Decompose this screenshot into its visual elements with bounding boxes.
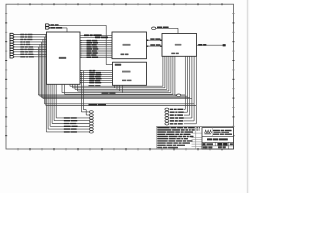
wire U1-U2 address row 4 [80, 48, 114, 50]
company logo [204, 130, 211, 134]
wire U1 port pin 3 to E11 [50, 84, 90, 126]
wire U1-U2 address row 8 [80, 56, 114, 58]
IC U4 MODEM [162, 34, 197, 57]
wire U1-U2 address row 2 [80, 44, 114, 46]
wire data bus D2 [75, 56, 167, 89]
net label port row 4 [64, 128, 77, 129]
connector J2 pin 2 CLK-A [46, 27, 63, 29]
notes text [157, 127, 195, 148]
net label port row 5 [64, 131, 77, 132]
wire J1-3 to U1 [14, 38, 48, 41]
connector J2 pin 1 CLK-B [46, 24, 59, 26]
wire U3 pin 2 to bus [119, 85, 121, 91]
net label DATA BUS [102, 92, 116, 94]
connector J1 pin 2 [10, 36, 32, 38]
wire CLK-B net [49, 25, 113, 64]
wire bus branch J1-2 [44, 37, 194, 104]
company name [213, 130, 232, 135]
wire U1-U2 address row 6 [80, 52, 114, 54]
wire J1-4 to U1 [14, 40, 48, 43]
connector E9 [89, 117, 93, 119]
wire U1-U3 row 3 [80, 76, 114, 78]
connector J1 pin 3 [10, 38, 32, 40]
wire U1 port pin 1 to E9 [54, 84, 90, 120]
wire U4 pin column 3 [184, 56, 192, 118]
connector E1 [165, 108, 183, 110]
wire U2-U4 TXD [147, 44, 163, 47]
wire data bus D1 [73, 56, 165, 88]
net label bus L1 [89, 85, 101, 87]
wire CLK-A net [49, 28, 67, 32]
wire bus branch J1-3 [43, 39, 192, 98]
dwg number [217, 143, 227, 146]
wire U2-U4 RXD [147, 38, 163, 41]
wire U1-U3 row 1 [80, 72, 114, 74]
connector E7 [89, 111, 93, 113]
notes table frame [156, 127, 233, 149]
wire U3 pin 3 to bus [121, 85, 123, 92]
fscm field [207, 143, 213, 145]
connector J1 pin 10 [10, 56, 34, 58]
wire U4 pin column 2 [184, 56, 190, 115]
wire U1-U2 address row 0 [80, 40, 114, 42]
connector E8 [89, 114, 93, 116]
connector E2 [165, 111, 184, 113]
title block frame [202, 128, 234, 149]
resistor R1 [152, 27, 169, 30]
net label port row 2 [64, 123, 76, 124]
connector J1 pin 9 [10, 53, 33, 55]
scan edge artifact right [247, 0, 249, 193]
wire U4 pin column 4 [184, 56, 194, 121]
IC U3 ROM [113, 62, 147, 85]
connector E6 [165, 123, 183, 125]
wire R1 to U4 [156, 28, 178, 33]
connector J1 pin 1 [10, 33, 32, 35]
wire U1-U2 row B [80, 37, 114, 39]
connector J1 pin 7 [10, 48, 34, 50]
wire U4 pin column 5 [184, 56, 196, 124]
sheet field [218, 146, 226, 148]
IC U1 CPU [47, 32, 81, 84]
connector E14 [89, 131, 93, 133]
wire data bus D0 [70, 56, 163, 86]
wire U1-U3 row 4 [80, 78, 114, 80]
wire U1-U2 address row 3 [80, 46, 114, 48]
wire U1-U3 row 6 [80, 82, 114, 84]
wire bus branch J1-4 [41, 42, 189, 97]
wire U1-U2 address row 5 [80, 50, 114, 52]
wire J1-10 to U1 [14, 55, 48, 58]
notes rule lines [192, 133, 202, 146]
wire J1-6 to U1 [14, 45, 48, 48]
wire U4 to TP1 [175, 56, 177, 95]
wire U1 port pin 4 to E12 [48, 84, 90, 129]
wire data bus D3 [78, 56, 169, 91]
wire J1-2 to U1 [14, 36, 48, 39]
connector P3 [223, 44, 226, 46]
wire J1-5 to U1 [14, 43, 48, 46]
wire U4 output [197, 44, 223, 46]
connector J1 pin 6 [10, 46, 33, 48]
scale field [203, 146, 213, 148]
connector E3 [165, 114, 183, 116]
connector J1 pin 5 [10, 43, 30, 45]
wire U1-U3 row 0 [80, 70, 114, 72]
wire U1-U2 address row 7 [80, 54, 114, 56]
wire U1-U3 row 5 [80, 80, 114, 82]
net label XTAL BUS lower [89, 104, 107, 106]
wire J1-9 to U1 [14, 53, 48, 56]
wire U1-U2 address row 1 [80, 42, 114, 44]
sheet border frame [5, 3, 234, 150]
connector E11 [89, 122, 93, 124]
wire U1-U3 row 2 [80, 74, 114, 76]
wire U1 port pin 2 to E10 [52, 84, 90, 123]
IC U2 RAM [112, 32, 147, 59]
connector J1 pin 4 [10, 41, 30, 43]
size field [203, 143, 206, 145]
drawing title [207, 138, 228, 140]
wire U1 port pin 0 to E8 [56, 84, 89, 118]
wire U1 port pin to E7 [81, 73, 89, 112]
connector E12 [89, 125, 93, 127]
net label port row 0 [64, 117, 77, 118]
connector E13 [89, 128, 93, 130]
connector E5 [165, 120, 183, 122]
wire U4 pin column 0 [184, 56, 185, 109]
wire bus branch J1-1 [46, 35, 197, 106]
test point TP1 [177, 94, 181, 97]
wire data bus D4 [62, 56, 171, 92]
wire bus branch J1-6 [38, 47, 185, 95]
wire J1-7 to U1 [14, 48, 48, 51]
wire J1-1 to U1 [14, 33, 48, 36]
connector E10 [89, 120, 93, 122]
connector E4 [165, 117, 184, 119]
wire U3 pin 1 to bus [116, 85, 118, 89]
wire U1 port pin 2 to E8 [83, 71, 89, 115]
net label port row 3 [64, 126, 78, 127]
wire U1-U2 row A [80, 34, 114, 36]
wire U1 port pin 5 to E13 [46, 84, 89, 132]
connector J1 pin 8 [10, 51, 33, 53]
rev field [230, 143, 233, 145]
wire bus branch J1-5 [40, 44, 188, 96]
wire J1-8 to U1 [14, 50, 48, 53]
revision note text [196, 127, 200, 131]
wire U3 pin 0 to bus [113, 85, 115, 88]
wire U4 pin column 1 [184, 56, 188, 112]
wire data bus D5 [65, 56, 173, 94]
net label port row 1 [64, 120, 78, 121]
